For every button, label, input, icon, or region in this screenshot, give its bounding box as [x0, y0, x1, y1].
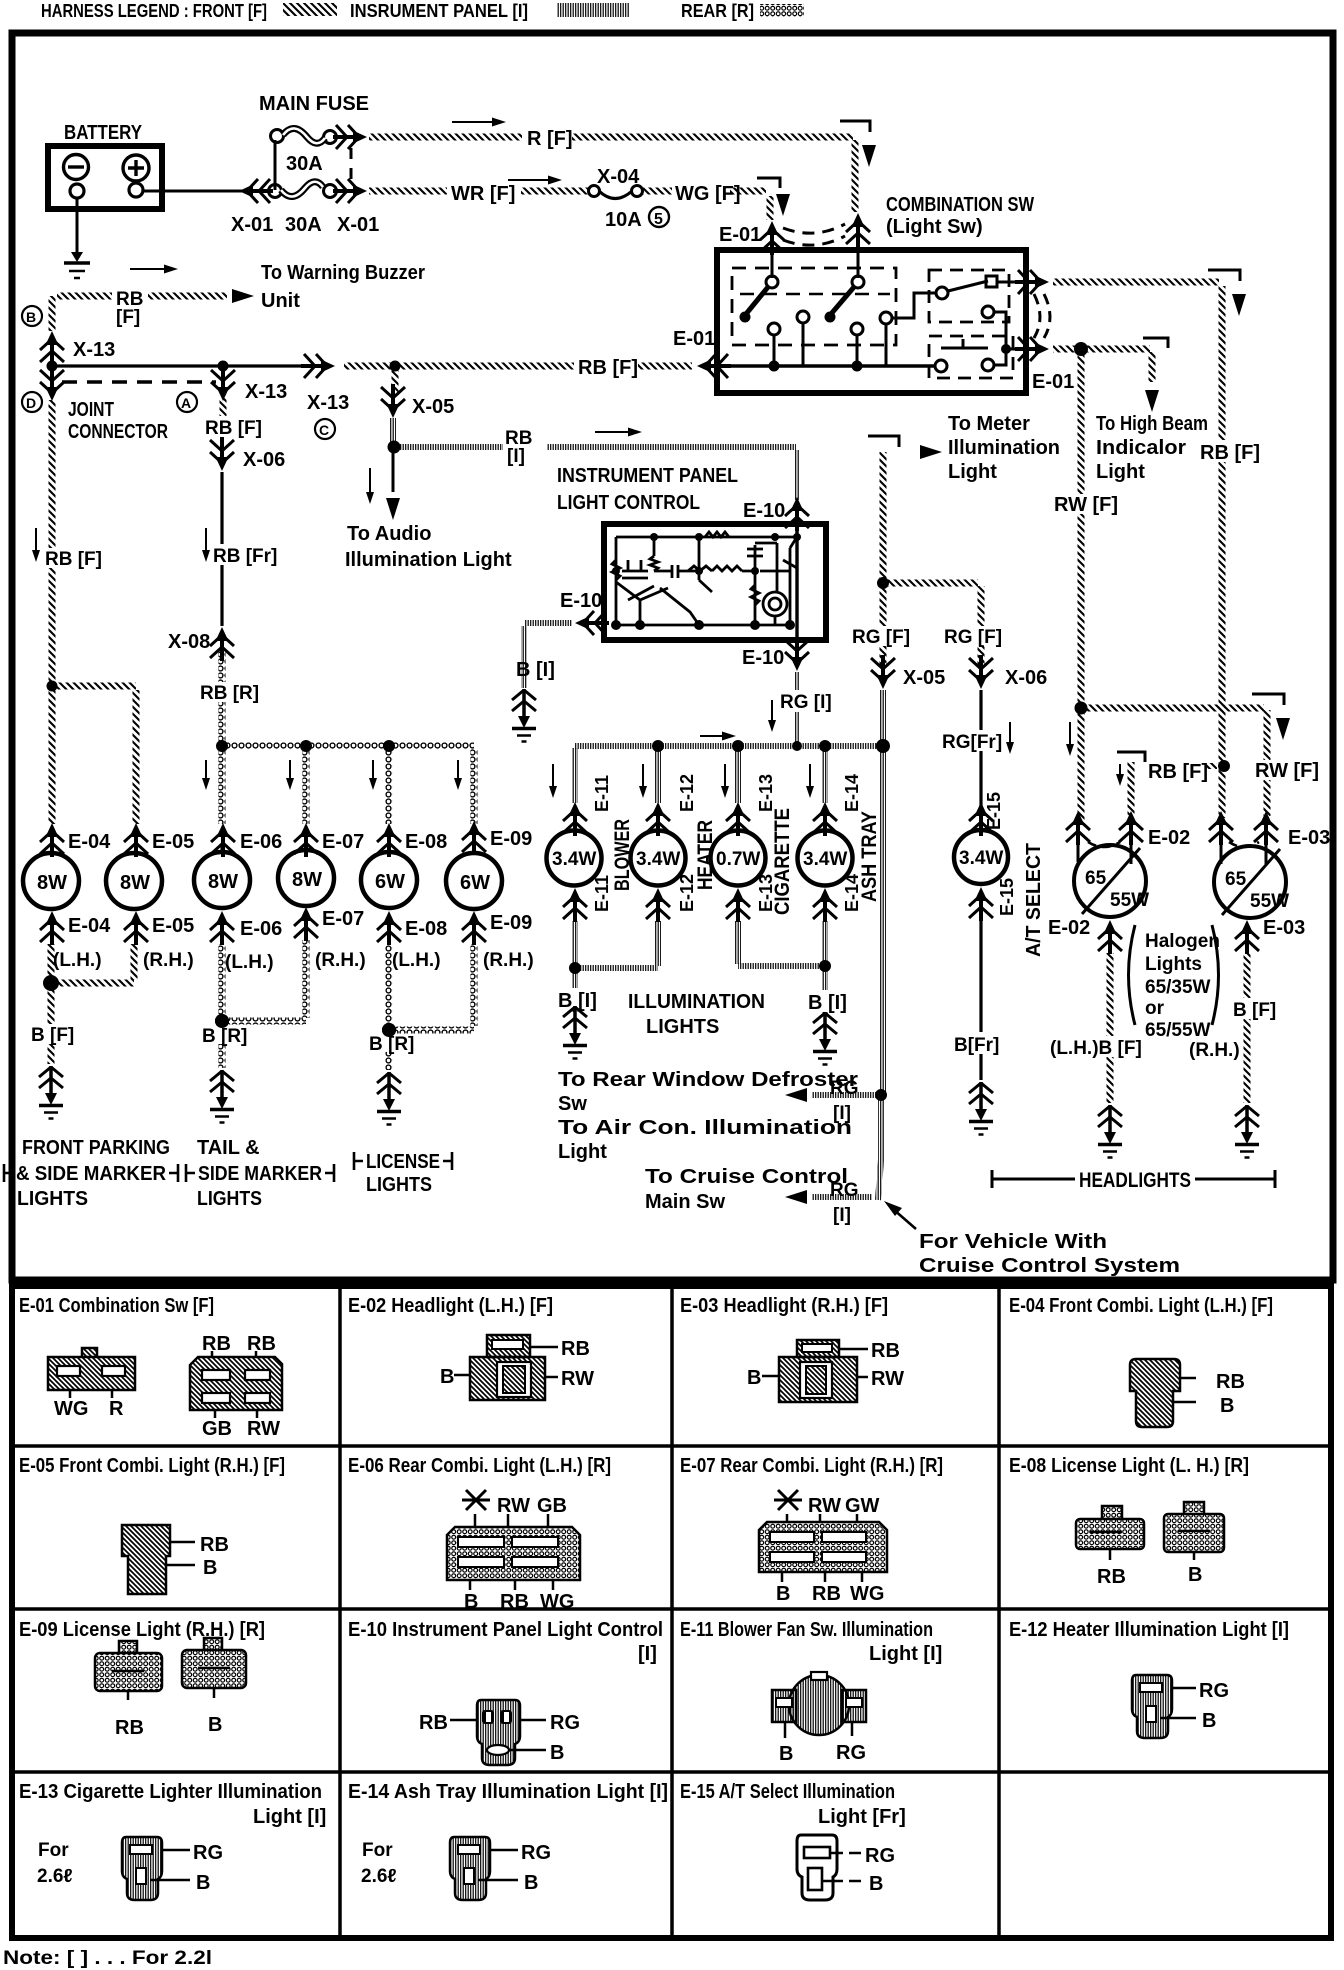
svg-text:E-13: E-13 — [756, 774, 776, 812]
svg-text:RB: RB — [247, 1333, 276, 1355]
connector E-13 chevron bottom — [726, 888, 750, 922]
svg-text:X-04: X-04 — [597, 166, 640, 188]
wire RW F vertical — [1078, 353, 1085, 820]
wire fuse bottom output — [336, 190, 350, 193]
battery B1 — [48, 146, 162, 209]
wire RG F X-05 upper — [880, 452, 887, 580]
wire drop E-13 — [735, 750, 741, 803]
svg-text:RB: RB — [115, 1717, 144, 1739]
connector X-01 right chevrons top — [333, 125, 367, 149]
svg-text:E-04: E-04 — [68, 915, 111, 937]
svg-text:RB: RB — [1216, 1371, 1245, 1393]
svg-text:HEATER: HEATER — [694, 820, 717, 890]
svg-text:Indicalor: Indicalor — [1096, 437, 1186, 459]
svg-text:RB [F]: RB [F] — [1200, 442, 1260, 464]
guide arrow RB F left — [35, 528, 37, 556]
svg-text:E-07: E-07 — [322, 831, 364, 853]
svg-text:(R.H.): (R.H.) — [143, 950, 194, 971]
svg-text:HARNESS LEGEND : FRONT [F]: HARNESS LEGEND : FRONT [F] — [41, 1, 267, 21]
svg-text:RB: RB — [812, 1583, 841, 1605]
label B F right — [1231, 998, 1281, 1021]
internal bus wire — [717, 364, 935, 368]
guide arrow RW drop — [1069, 722, 1071, 750]
svg-text:(L.H.): (L.H.) — [53, 950, 102, 971]
junction dot B I mid — [569, 962, 581, 974]
svg-text:E-12: E-12 — [677, 774, 697, 812]
switch contact S2 — [852, 276, 864, 288]
joint connector dashed tie — [62, 380, 216, 383]
svg-text:E-01: E-01 — [719, 224, 761, 246]
bulb E-12 3.4W — [631, 826, 686, 886]
svg-text:RB: RB — [200, 1534, 229, 1556]
svg-text:X-01: X-01 — [231, 214, 273, 236]
svg-text:3.4W: 3.4W — [959, 848, 1003, 869]
wire drop E-14 — [822, 750, 828, 803]
bulb E-05 8W — [106, 846, 162, 909]
svg-text:B[Fr]: B[Fr] — [954, 1035, 999, 1056]
cell E-01 combination sw — [19, 1295, 282, 1440]
joint connector bus wire — [52, 364, 312, 367]
bulb E-07 8W — [278, 846, 334, 906]
svg-text:[I]: [I] — [638, 1643, 657, 1665]
light control internal circuit — [612, 532, 797, 625]
connector E-11 chevron bottom — [563, 888, 587, 922]
svg-text:FRONT PARKING: FRONT PARKING — [22, 1137, 170, 1159]
wire RG branch to X-06 — [888, 583, 981, 666]
bulb E-04 8W — [23, 846, 79, 909]
wire E-10 internal main — [795, 526, 798, 640]
svg-text:RW [F]: RW [F] — [1054, 494, 1118, 516]
svg-text:LICENSE: LICENSE — [366, 1151, 440, 1173]
bulb E-08 6W — [361, 846, 417, 908]
svg-text:[I]: [I] — [833, 1205, 851, 1226]
junction dot RW branch — [1075, 702, 1088, 715]
wire WR [F] run — [369, 188, 588, 195]
svg-text:To Warning Buzzer: To Warning Buzzer — [261, 262, 425, 284]
connector X-01 right chevrons bottom — [333, 179, 367, 203]
wire B R tail ground run — [219, 1025, 226, 1068]
svg-text:To Rear Window Defroster: To Rear Window Defroster — [558, 1069, 858, 1091]
svg-text:RG: RG — [1199, 1680, 1229, 1702]
wire E-01 entries into switch — [772, 238, 858, 278]
junction dot X-05 branch — [390, 361, 401, 372]
svg-text:0.7W: 0.7W — [716, 849, 760, 870]
svg-text:E-02: E-02 — [1048, 917, 1090, 939]
connector X-06 chevron mid — [969, 655, 993, 689]
ground headlight left — [1098, 1105, 1122, 1158]
svg-text:E-14: E-14 — [842, 874, 862, 912]
label RB F right — [1198, 440, 1260, 464]
svg-text:LIGHTS: LIGHTS — [17, 1188, 88, 1210]
svg-text:E-05: E-05 — [152, 915, 194, 937]
svg-text:Light: Light — [948, 461, 997, 483]
connector E-03 chevron left — [1209, 811, 1233, 845]
contact pin right mid — [982, 306, 994, 318]
wire RB [I] to light control — [398, 444, 796, 450]
svg-text:C: C — [319, 422, 329, 438]
wire RB F right vertical — [1219, 286, 1226, 818]
svg-text:55W: 55W — [1250, 891, 1289, 912]
svg-text:WG: WG — [54, 1398, 88, 1420]
svg-text:X-06: X-06 — [243, 449, 285, 471]
connector X-13 right chevron — [301, 354, 335, 378]
label RG Fr — [940, 730, 1002, 753]
wire RB F top right run — [1053, 279, 1219, 286]
svg-text:E-06: E-06 — [240, 918, 282, 940]
svg-text:E-10 Instrument Panel Light Co: E-10 Instrument Panel Light Control — [348, 1619, 663, 1641]
svg-text:(L.H.): (L.H.) — [225, 952, 274, 973]
wire junction to exit — [1006, 348, 1026, 351]
cell E-12 heater illumination light — [1009, 1619, 1289, 1738]
connector E-08 chevron top — [377, 823, 401, 857]
ground headlight right — [1235, 1105, 1259, 1158]
connector E-14 chevron top — [813, 802, 837, 836]
svg-text:E-07: E-07 — [322, 908, 364, 930]
svg-text:E-15: E-15 — [997, 878, 1017, 916]
svg-text:JOINT: JOINT — [68, 399, 114, 421]
label RG I — [778, 690, 832, 713]
svg-text:To High Beam: To High Beam — [1096, 413, 1208, 435]
svg-text:E-04: E-04 — [68, 831, 111, 853]
junction dot RB label tick — [1206, 763, 1217, 769]
connector E-06 chevron bottom — [210, 911, 234, 945]
svg-text:B: B — [208, 1714, 222, 1736]
wire to audio illumination drop — [392, 451, 395, 492]
bulb E-14 3.4W — [798, 826, 853, 886]
dashed tie E-03 — [1229, 842, 1259, 847]
wire E-09 to junction — [389, 944, 474, 1030]
svg-text:RB [F]: RB [F] — [45, 549, 102, 570]
direction arrow over R wire — [452, 121, 500, 123]
wire RB stub to E-02 — [1128, 762, 1135, 816]
junction dot mid — [218, 361, 229, 372]
junction dot RG I branch — [875, 1089, 887, 1101]
svg-text:B: B — [203, 1557, 217, 1579]
svg-text:X-01: X-01 — [337, 214, 379, 236]
svg-text:RG: RG — [193, 1842, 223, 1864]
wire E-15 to ground — [979, 920, 982, 1080]
label B Fr — [952, 1032, 1005, 1056]
wire B I mid ground run — [572, 970, 578, 1012]
dashed box right upper — [929, 270, 1009, 322]
junction dot RB I — [388, 441, 401, 454]
wire B R license ground run — [386, 1034, 393, 1070]
connector E-02 chevron right — [1119, 811, 1143, 845]
dashed connector tie E-01 top — [783, 224, 845, 233]
svg-text:8W: 8W — [120, 872, 150, 894]
svg-text:[I]: [I] — [833, 1103, 851, 1124]
junction dot B I right — [819, 960, 831, 972]
svg-text:55W: 55W — [1110, 890, 1149, 911]
wire E-14 down and link — [738, 921, 825, 966]
wire B I from E-10 — [524, 623, 572, 688]
cell E-13 cigarette lighter illumination — [19, 1781, 326, 1900]
wire branch to E-05 — [52, 686, 136, 824]
wire RG F X-05 lower — [880, 586, 887, 666]
wire E-13 down — [735, 921, 741, 964]
bulb E-11 3.4W — [547, 826, 602, 886]
headlight E-02 65/55W — [1074, 845, 1149, 917]
svg-text:RG: RG — [830, 1078, 859, 1099]
svg-text:RG: RG — [521, 1842, 551, 1864]
svg-text:or: or — [1145, 998, 1165, 1019]
svg-text:[F]: [F] — [116, 307, 140, 328]
direction arrow bus — [700, 735, 730, 737]
svg-text:X-13: X-13 — [73, 339, 115, 361]
svg-text:E-01: E-01 — [673, 328, 715, 350]
svg-text:& SIDE MARKER: & SIDE MARKER — [16, 1163, 167, 1185]
wire RB [F] to warning buzzer — [52, 296, 227, 331]
svg-text:RG: RG — [865, 1845, 895, 1867]
junction dot left — [47, 361, 58, 372]
cell E-05 front combi RH — [19, 1455, 285, 1594]
svg-text:RW: RW — [808, 1495, 841, 1517]
svg-text:E-06 Rear Combi. Light (L.H.): E-06 Rear Combi. Light (L.H.) [R] — [348, 1455, 611, 1477]
svg-text:B [R]: B [R] — [202, 1026, 247, 1047]
svg-text:E-14: E-14 — [842, 774, 862, 812]
label B F — [29, 1024, 79, 1046]
svg-text:E-01 Combination Sw [F]: E-01 Combination Sw [F] — [19, 1295, 214, 1317]
connector E-09 chevron top — [462, 821, 486, 855]
svg-text:E-03: E-03 — [1288, 827, 1330, 849]
svg-text:RB: RB — [871, 1340, 900, 1362]
svg-text:WG: WG — [540, 1591, 574, 1613]
wire E-10 top entry — [794, 450, 800, 526]
wire drop E-12 — [655, 750, 661, 803]
svg-text:B: B — [464, 1591, 478, 1613]
svg-text:X-08: X-08 — [168, 631, 210, 653]
wire R [F] top run — [369, 134, 853, 141]
dashed tie E-02 — [1088, 842, 1120, 847]
connector E-09 chevron bottom — [462, 911, 486, 945]
svg-text:E-13: E-13 — [756, 874, 776, 912]
connector E-05 chevron top — [124, 823, 148, 857]
svg-text:(Light Sw): (Light Sw) — [886, 216, 983, 238]
connector E-07 chevron bottom — [294, 907, 318, 941]
label front parking and side marker lights — [4, 1137, 178, 1210]
corner jump bracket RW branch — [1252, 694, 1284, 705]
svg-text:E-08: E-08 — [405, 831, 447, 853]
cell E-04 front combi LH — [1009, 1295, 1273, 1427]
guide arrows rear drops — [206, 760, 458, 784]
wire X-05 main drop — [880, 750, 886, 1092]
connector E-10 bottom chevron — [785, 637, 809, 671]
svg-text:Light [I]: Light [I] — [869, 1643, 942, 1665]
svg-text:D: D — [26, 395, 36, 411]
exit chevrons left E-01 — [697, 354, 731, 378]
svg-text:R: R — [109, 1398, 124, 1420]
wire E-03 ground run — [1244, 953, 1251, 1103]
junction dot B R license — [382, 1023, 396, 1037]
svg-text:To Air Con. Illumination: To Air Con. Illumination — [558, 1117, 852, 1139]
connector E-10 left exit chevron — [575, 611, 609, 635]
svg-text:E-10: E-10 — [560, 590, 602, 612]
svg-text:E-08 License Light (L. H.) [R]: E-08 License Light (L. H.) [R] — [1009, 1455, 1249, 1477]
svg-text:RB: RB — [202, 1333, 231, 1355]
svg-text:LIGHTS: LIGHTS — [646, 1016, 719, 1038]
dashed connector tie right exits — [1034, 294, 1040, 338]
connector X-01 left chevrons — [239, 179, 273, 203]
svg-text:Note: [ ] . . . For 2.2l: Note: [ ] . . . For 2.2l — [3, 1948, 212, 1969]
contact pin lower left — [935, 360, 947, 372]
svg-text:E-11: E-11 — [592, 875, 612, 912]
ground battery — [64, 252, 90, 278]
svg-text:E-09: E-09 — [490, 828, 532, 850]
switch section dashed box left — [732, 268, 896, 345]
connector X-05 chevron — [381, 384, 405, 418]
wire WG [F] — [643, 188, 766, 195]
svg-text:E-05 Front Combi. Light (R.H.): E-05 Front Combi. Light (R.H.) [F] — [19, 1455, 285, 1477]
svg-text:E-05: E-05 — [152, 831, 194, 853]
junction dot B F — [43, 975, 59, 991]
contact pins lower row — [768, 323, 780, 335]
svg-text:B: B — [196, 1872, 210, 1894]
svg-text:RB [Fr]: RB [Fr] — [213, 546, 277, 567]
exit chevrons lower — [1015, 337, 1049, 361]
wire E-05 to junction — [51, 944, 134, 983]
connector E-06 chevron top — [211, 823, 235, 857]
svg-text:B: B — [524, 1872, 538, 1894]
wire RB [F] mid drop stub — [222, 370, 225, 378]
headlight E-03 65/55W — [1214, 845, 1289, 918]
label RB R — [198, 682, 259, 704]
connector X-13 up chevron — [40, 331, 64, 365]
wire drop to E-04 — [49, 690, 56, 824]
svg-text:GB: GB — [537, 1495, 567, 1517]
svg-text:RB [F]: RB [F] — [205, 418, 262, 439]
label halogen note with parens — [1129, 925, 1220, 1041]
wire E-07 to junction — [222, 940, 306, 1021]
svg-text:RB [R]: RB [R] — [200, 683, 259, 704]
direction arrow over WR wire — [508, 179, 556, 181]
wire pin elbow to lower box — [994, 312, 1006, 346]
svg-text:LIGHTS: LIGHTS — [366, 1174, 432, 1196]
wire RB [F] bus to combination sw — [344, 363, 692, 370]
main fuse 30A lower element — [269, 182, 337, 236]
wire drop E-07 — [303, 750, 310, 824]
svg-text:3.4W: 3.4W — [552, 849, 596, 870]
wire E-06 to junction — [219, 944, 226, 1018]
svg-text:R [F]: R [F] — [527, 128, 573, 150]
connector E-02 chevron left — [1066, 811, 1090, 845]
connector E-01 entry chevrons right — [846, 213, 870, 247]
svg-text:RB [F]: RB [F] — [1148, 761, 1208, 783]
svg-text:B: B — [1202, 1710, 1216, 1732]
connector X-13 down chevron mid — [211, 367, 235, 401]
ground illumination right — [813, 1012, 837, 1065]
wire battery positive to main fuse — [143, 190, 271, 193]
wire drop E-09 — [471, 748, 478, 824]
label license lights — [354, 1151, 452, 1196]
svg-text:X-06: X-06 — [1005, 667, 1047, 689]
svg-text:8W: 8W — [292, 869, 322, 891]
connector X-05 chevron mid — [871, 655, 895, 689]
wire RG I from E-10 — [794, 642, 800, 744]
wire RG I lower drop — [878, 1098, 881, 1200]
svg-text:8W: 8W — [37, 872, 67, 894]
svg-text:B: B — [1188, 1564, 1202, 1586]
svg-text:Light [I]: Light [I] — [253, 1806, 326, 1828]
junction dot E-04 branch — [47, 681, 58, 692]
wire E-12 down and link — [575, 921, 658, 968]
switch lever S1 — [746, 287, 768, 314]
wire B F to ground — [48, 987, 55, 1064]
wire drop E-11 — [572, 748, 578, 803]
svg-text:RW: RW — [871, 1368, 904, 1390]
svg-text:E-04 Front Combi. Light (L.H.): E-04 Front Combi. Light (L.H.) [F] — [1009, 1295, 1273, 1317]
svg-text:RB [F]: RB [F] — [578, 357, 638, 379]
label B I mid — [556, 988, 604, 1012]
svg-text:(R.H.): (R.H.) — [1189, 1040, 1240, 1061]
switch lever S2 — [831, 287, 854, 314]
node A circled — [177, 392, 197, 412]
connector E-12 chevron top — [646, 802, 670, 836]
wire RG Fr to AT select — [979, 690, 982, 806]
svg-text:2.6ℓ: 2.6ℓ — [361, 1866, 397, 1887]
dashed mid line left box — [740, 293, 890, 295]
cell E-15 AT select illumination — [680, 1781, 906, 1900]
svg-text:6W: 6W — [375, 871, 405, 893]
svg-text:For Vehicle With: For Vehicle With — [919, 1231, 1107, 1253]
cell E-08 license light LH — [1009, 1455, 1249, 1588]
wire RB F left drop — [49, 400, 56, 684]
svg-text:Lights: Lights — [1145, 954, 1202, 975]
guide arrow RB Fr — [205, 528, 207, 556]
guide arrow RG I — [771, 700, 773, 726]
corner jump bracket RB stub — [1117, 752, 1145, 762]
wire to high beam stub — [1086, 349, 1152, 382]
ground AT select — [969, 1082, 993, 1135]
svg-text:5: 5 — [654, 211, 663, 228]
svg-text:CONNECTOR: CONNECTOR — [68, 421, 168, 443]
svg-text:B: B — [550, 1742, 564, 1764]
connector E-15 chevron bottom — [969, 887, 993, 921]
guide arrows illumination drops — [553, 764, 810, 792]
svg-text:B: B — [1220, 1395, 1234, 1417]
svg-text:Main Sw: Main Sw — [645, 1191, 725, 1213]
svg-text:WG [F]: WG [F] — [675, 183, 741, 205]
svg-text:B [I]: B [I] — [808, 992, 847, 1014]
svg-text:(L.H.): (L.H.) — [392, 950, 441, 971]
ground license lights — [377, 1072, 401, 1125]
svg-text:X-13: X-13 — [307, 392, 349, 414]
wire R [F] drop to combination sw — [852, 140, 859, 212]
internal junction dots — [611, 533, 801, 630]
node D circled — [22, 392, 42, 412]
ground tail lights — [210, 1070, 234, 1123]
svg-text:Light [Fr]: Light [Fr] — [818, 1806, 906, 1828]
wire fuse top output — [336, 136, 352, 139]
svg-text:RB: RB — [419, 1712, 448, 1734]
wire lower pin elbow — [994, 349, 1006, 365]
wire X-05 to RB I node — [390, 418, 396, 446]
svg-text:LIGHTS: LIGHTS — [197, 1188, 262, 1210]
svg-text:X-05: X-05 — [903, 667, 945, 689]
svg-text:To Meter: To Meter — [948, 413, 1030, 435]
cruise control callout arrow — [893, 1209, 916, 1229]
label LH B F — [1048, 1036, 1148, 1059]
cell E-07 rear combi RH — [680, 1455, 943, 1605]
svg-text:RB: RB — [1097, 1566, 1126, 1588]
wire lever to left pin — [892, 293, 936, 318]
connector E-07 chevron top — [294, 823, 318, 857]
svg-text:E-11 Blower Fan Sw. Illuminati: E-11 Blower Fan Sw. Illumination — [680, 1619, 933, 1641]
svg-text:65: 65 — [1085, 868, 1107, 889]
corner jump bracket meter illumination — [868, 436, 899, 447]
arrow to warning buzzer unit — [232, 289, 254, 303]
label RW F — [1052, 494, 1118, 516]
label RB Fr — [212, 544, 277, 567]
